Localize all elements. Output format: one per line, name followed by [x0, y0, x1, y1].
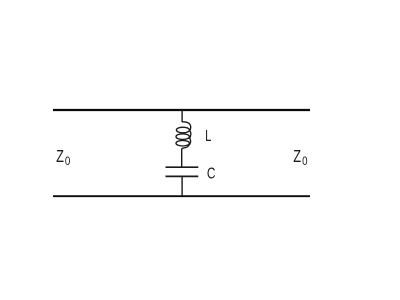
svg-text:Z: Z [293, 147, 301, 167]
wire bottom conductor [53, 195, 310, 197]
wire bottom lead of shunt branch [181, 176, 183, 196]
svg-text:Z: Z [56, 147, 64, 167]
wire middle lead between inductor and capacitor [181, 149, 183, 168]
svg-text:L: L [205, 126, 211, 145]
wire top conductor [53, 109, 310, 111]
svg-text:0: 0 [65, 156, 70, 169]
svg-text:0: 0 [302, 156, 307, 169]
inductor L [176, 122, 191, 149]
capacitor C [166, 167, 199, 176]
svg-text:C: C [207, 164, 216, 182]
wire top lead of shunt branch [181, 110, 183, 122]
